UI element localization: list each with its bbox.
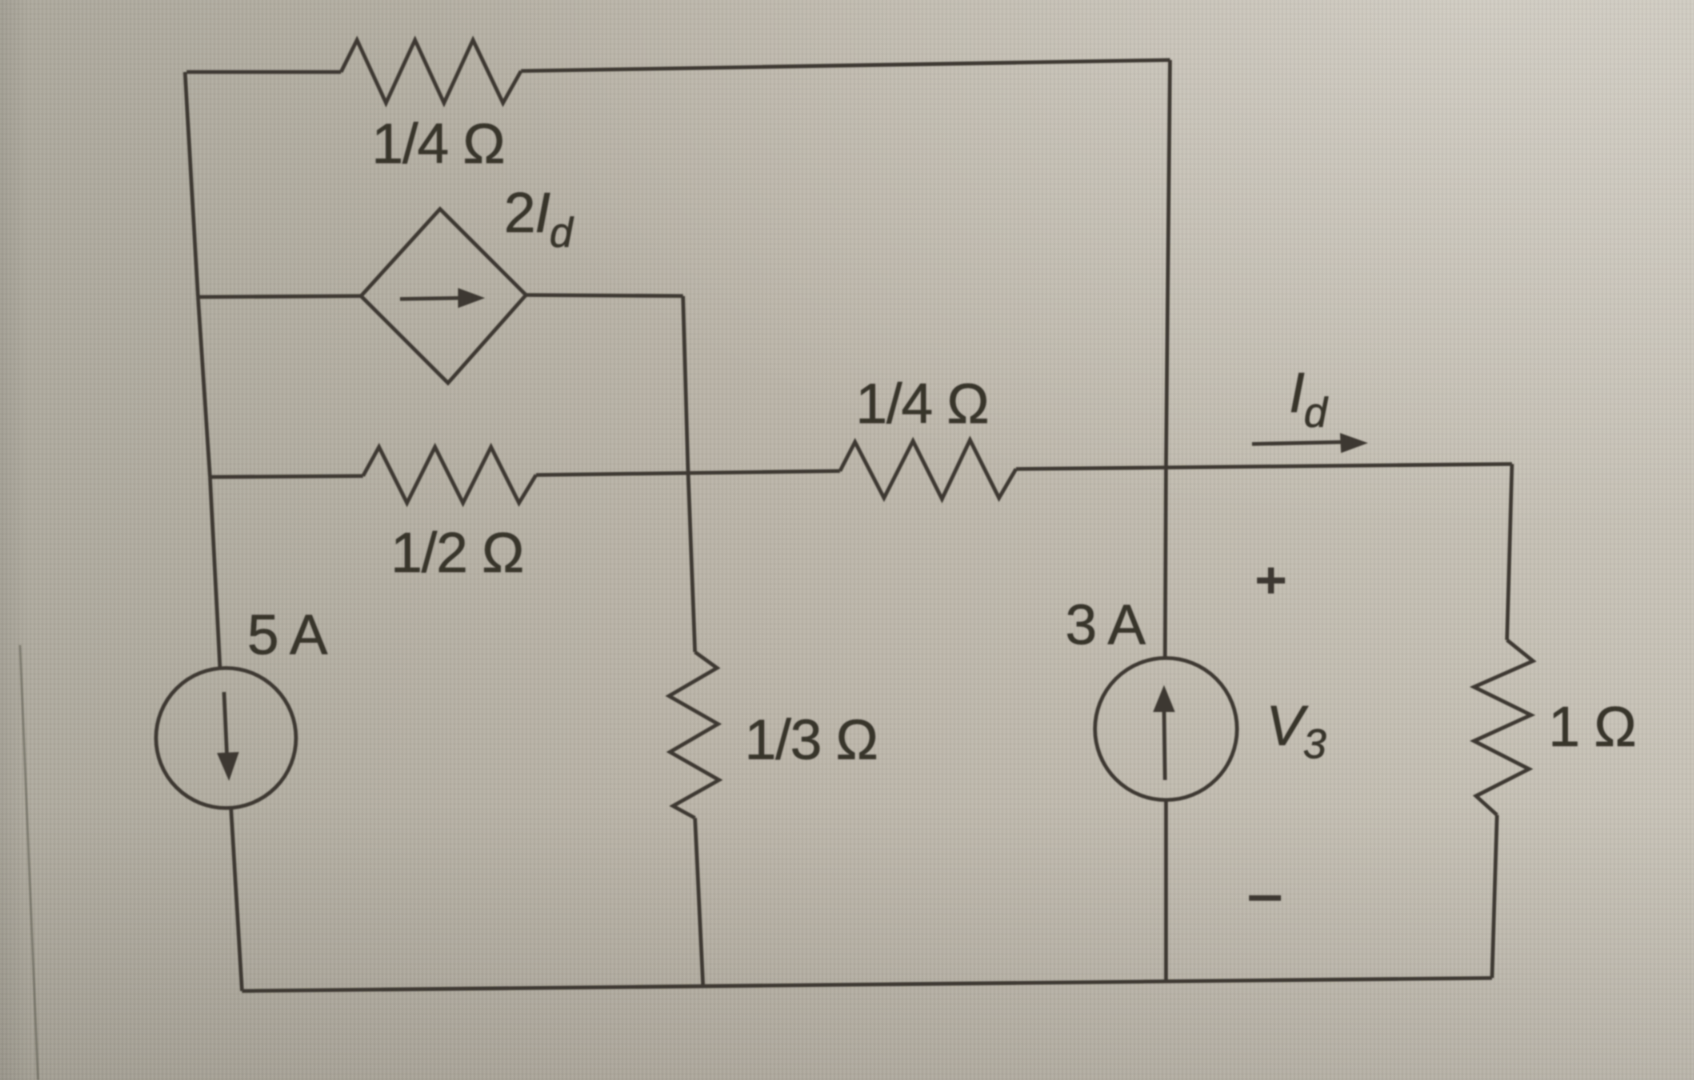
arrow for current Id (points right) <box>1252 442 1344 444</box>
svg-text:Id: Id <box>1289 361 1329 436</box>
wire 3A branch upper <box>1165 468 1166 659</box>
minus sign of V3 <box>1249 895 1281 901</box>
wire left vertical upper (top corner to diamond row) <box>185 72 198 297</box>
wire middle-right segment <box>1016 464 1512 469</box>
wire 1/3-ohm branch lower <box>695 818 703 985</box>
wire below 5A source to bottom-left corner <box>231 808 242 991</box>
wire dependent-source left lead <box>198 296 361 297</box>
current source I1 5 A (circle) <box>156 668 296 808</box>
wire right branch vertical lower <box>1492 815 1497 978</box>
svg-text:2Id: 2Id <box>504 181 575 256</box>
svg-text:1/3 Ω: 1/3 Ω <box>745 708 878 772</box>
wire 1/3-ohm branch upper <box>688 470 695 652</box>
wire dependent-source right lead <box>526 295 683 296</box>
arrow of 5 A source (points down) <box>224 692 227 757</box>
resistor R4 1/3 ohm (vertical) <box>669 652 719 818</box>
plus sign of V3 <box>1257 578 1285 584</box>
resistor R3 1/4 ohm (middle) <box>840 440 1016 499</box>
svg-text:V3: V3 <box>1266 694 1326 767</box>
svg-text:3 A: 3 A <box>1065 593 1145 657</box>
wire from diamond corner down to middle wire <box>683 296 688 470</box>
svg-text:1 Ω: 1 Ω <box>1548 695 1635 759</box>
svg-text:1/4 Ω: 1/4 Ω <box>856 372 989 436</box>
svg-text:1/4 Ω: 1/4 Ω <box>372 112 505 176</box>
wire middle-center segment <box>536 471 840 475</box>
wire top horizontal right segment <box>521 60 1170 71</box>
resistor R1 1/4 ohm (top) <box>341 40 521 103</box>
wire top-left horizontal segment <box>187 70 341 74</box>
arrow of dependent source (points right) <box>400 298 459 299</box>
wire below 3A source to bottom wire <box>1164 800 1168 981</box>
resistor R2 1/2 ohm <box>363 447 536 503</box>
current source I2 3 A (circle) <box>1095 658 1237 800</box>
wire middle-left segment <box>210 476 363 477</box>
wire bottom horizontal <box>242 978 1492 991</box>
wire left vertical to 5A source <box>210 477 220 668</box>
svg-text:1/2 Ω: 1/2 Ω <box>391 521 524 585</box>
wire right branch vertical upper <box>1507 464 1512 640</box>
dependent current source 2Id (diamond) <box>361 209 526 383</box>
resistor R5 1 ohm (right vertical) <box>1474 640 1533 815</box>
faint screen edge line bottom-left <box>20 645 38 1080</box>
wire left vertical middle (diamond row to middle wire) <box>198 297 210 477</box>
svg-text:5 A: 5 A <box>247 603 327 667</box>
wire right-top vertical (down to middle wire) <box>1166 60 1170 468</box>
arrow of 3 A source (points up) <box>1164 708 1165 780</box>
